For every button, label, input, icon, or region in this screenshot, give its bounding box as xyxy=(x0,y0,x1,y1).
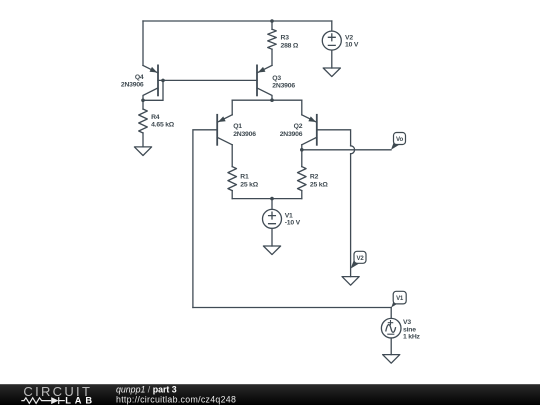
wire V2 bottom lead xyxy=(331,50,333,68)
wire V1 top lead xyxy=(271,199,273,210)
wire Q1 collector to R1 xyxy=(231,145,233,167)
logo resistor-diode glyph xyxy=(21,397,65,404)
wire base rail Q4-Q3 xyxy=(158,79,257,81)
svg-text:2N3906: 2N3906 xyxy=(233,131,256,138)
transistor Q4 xyxy=(143,65,158,100)
footer bar xyxy=(0,384,540,405)
net flag V2 xyxy=(351,251,366,268)
transistor Q1 xyxy=(217,115,232,145)
wire hop over Vo line xyxy=(351,146,355,154)
svg-text:Q1: Q1 xyxy=(233,123,242,130)
net flag V1 xyxy=(391,291,406,307)
junction node Q2 collector / R2 / Vo xyxy=(300,148,304,152)
svg-text:V1: V1 xyxy=(396,295,404,302)
wire R3 top lead xyxy=(271,21,273,29)
svg-text:25 kΩ: 25 kΩ xyxy=(240,182,258,189)
svg-text:4.65 kΩ: 4.65 kΩ xyxy=(151,122,175,129)
svg-text:V3: V3 xyxy=(403,319,411,326)
voltage source V1 xyxy=(263,209,282,228)
svg-text:288 Ω: 288 Ω xyxy=(281,42,299,49)
sine source V3 xyxy=(381,318,401,338)
wire left vertical from top rail to Q4 emitter xyxy=(142,21,144,65)
ground below V3 xyxy=(383,355,400,364)
net flag Vo xyxy=(391,133,406,150)
junction node Q4 collector / R4 xyxy=(141,99,145,103)
ground below R4 xyxy=(134,147,151,156)
svg-text:-10 V: -10 V xyxy=(285,220,301,227)
wire Q2 emitter drop xyxy=(301,100,303,115)
junction node Q4 base tie xyxy=(161,79,165,83)
wire R4 bottom lead xyxy=(142,133,144,147)
svg-text:Q2: Q2 xyxy=(294,123,303,130)
svg-text:1 kHz: 1 kHz xyxy=(403,334,421,341)
wire V1 bottom lead xyxy=(271,228,273,246)
wire Q2 collector to node xyxy=(301,145,303,150)
wire Q1 emitter drop xyxy=(231,100,233,115)
wire emitter rail Q1/Q2 xyxy=(232,99,302,101)
wire R1 bottom lead xyxy=(231,191,233,199)
wire bottom rail R1-R2 xyxy=(232,198,302,200)
svg-text:V2: V2 xyxy=(356,255,364,262)
svg-text:R3: R3 xyxy=(281,35,290,42)
svg-text:R4: R4 xyxy=(151,114,160,121)
wire bottom rail to V1 flag / V3 xyxy=(193,307,391,309)
svg-text:Vo: Vo xyxy=(396,136,403,143)
svg-text:Q4: Q4 xyxy=(135,74,144,81)
junction node Q3 collector on emitter rail xyxy=(270,98,274,102)
svg-text:V1: V1 xyxy=(285,212,293,219)
svg-text:2N3906: 2N3906 xyxy=(272,83,295,90)
wire V2 drop from rail xyxy=(331,21,333,31)
wire Vo horizontal xyxy=(302,149,391,151)
wire right vertical down to ground xyxy=(350,154,352,277)
ground below V1 xyxy=(263,246,280,255)
svg-text:qunpp1 / part 3: qunpp1 / part 3 xyxy=(116,385,177,395)
wire R3 bottom lead to Q3 emitter xyxy=(271,49,273,65)
svg-text:sine: sine xyxy=(403,326,416,333)
svg-text:2N3906: 2N3906 xyxy=(280,131,303,138)
svg-text:10 V: 10 V xyxy=(345,42,359,49)
resistor R1 xyxy=(228,167,237,191)
ground below V2 xyxy=(323,68,340,77)
wire R4 top lead xyxy=(142,100,144,109)
wire top rail xyxy=(143,20,332,22)
wire Q1 base to left vertical xyxy=(193,130,217,308)
wire V3 bottom lead xyxy=(390,338,392,355)
svg-text:LAB: LAB xyxy=(65,395,96,405)
svg-text:V2: V2 xyxy=(345,34,353,41)
wire Q4 base-collector tie xyxy=(143,80,163,100)
wire R2 top lead xyxy=(301,150,303,167)
wire Q2 base to right xyxy=(317,130,351,146)
svg-text:25 kΩ: 25 kΩ xyxy=(310,182,328,189)
resistor R2 xyxy=(298,167,307,191)
wire V3 top lead xyxy=(390,308,392,319)
svg-text:http://circuitlab.com/cz4q248: http://circuitlab.com/cz4q248 xyxy=(116,395,236,405)
svg-text:R2: R2 xyxy=(310,174,319,181)
junction node top rail / R3 xyxy=(270,19,274,23)
svg-text:R1: R1 xyxy=(240,174,249,181)
voltage source V2 xyxy=(322,31,341,50)
resistor R4 xyxy=(139,109,148,133)
svg-text:Q3: Q3 xyxy=(272,75,281,82)
resistor R3 xyxy=(268,29,277,49)
transistor Q2 xyxy=(302,115,317,145)
wire R2 bottom lead xyxy=(301,191,303,199)
svg-text:2N3906: 2N3906 xyxy=(121,81,144,88)
transistor Q3 xyxy=(257,65,272,100)
ground below V2 flag xyxy=(342,277,359,286)
junction node bottom rail / V1 xyxy=(270,197,274,201)
